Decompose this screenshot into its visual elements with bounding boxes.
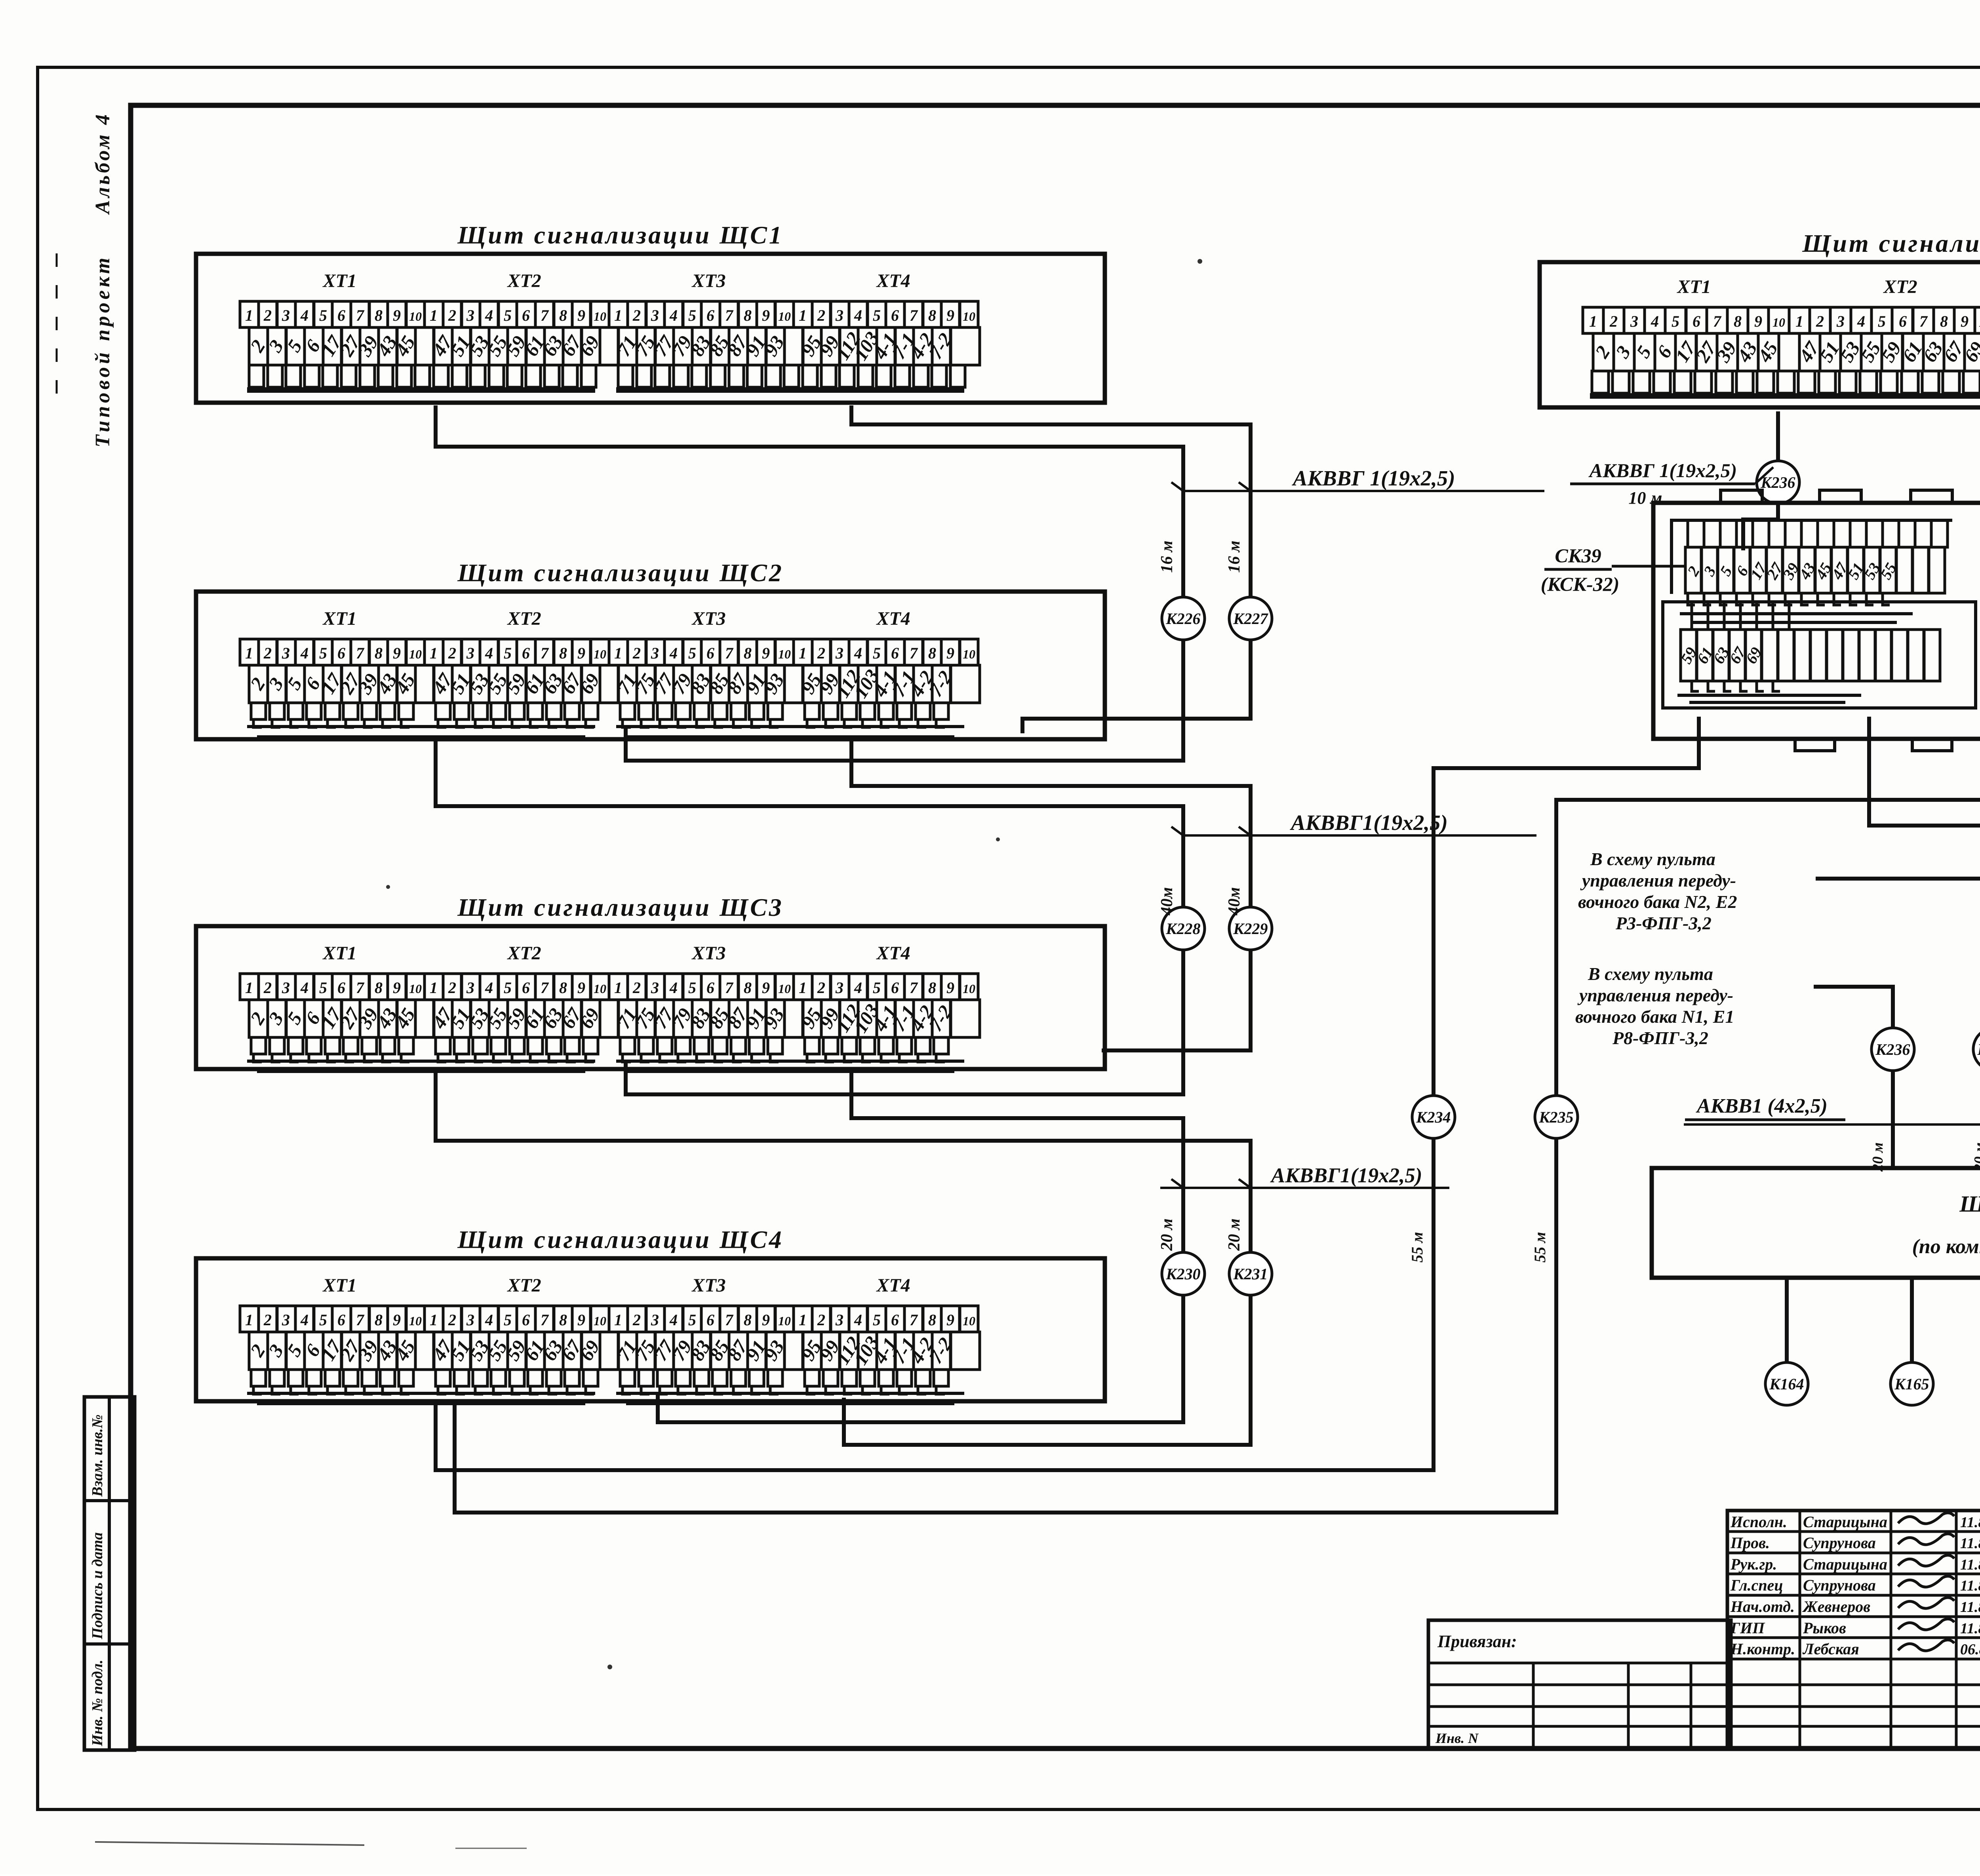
svg-text:5: 5: [504, 644, 512, 662]
svg-text:5: 5: [873, 306, 881, 324]
svg-text:К226: К226: [1165, 610, 1200, 628]
svg-text:7: 7: [725, 1311, 734, 1329]
terminal strip numbered cells of ЩС5: [1583, 307, 1603, 333]
terminal stubs of ЩС4: [251, 1370, 266, 1386]
svg-text:10: 10: [594, 647, 606, 661]
svg-text:9: 9: [393, 306, 401, 324]
svg-text:2: 2: [448, 1311, 456, 1329]
svg-text:9: 9: [946, 306, 954, 324]
svg-text:11.85: 11.85: [1960, 1556, 1980, 1573]
wire-number cells of ЩС2: [249, 665, 268, 703]
svg-text:7: 7: [910, 306, 918, 324]
svg-text:Щит 1Ш: Щит 1Ш: [1959, 1191, 1980, 1217]
svg-text:6: 6: [706, 979, 714, 997]
svg-text:11.85: 11.85: [1960, 1620, 1980, 1637]
svg-text:7: 7: [1919, 312, 1928, 330]
svg-text:2: 2: [448, 979, 456, 997]
signal panel ЩС2: [196, 592, 1105, 739]
svg-text:вочного бака N1, Е1: вочного бака N1, Е1: [1575, 1006, 1734, 1027]
svg-text:XT2: XT2: [1883, 276, 1917, 297]
svg-text:5: 5: [504, 979, 512, 997]
svg-text:1: 1: [614, 979, 622, 997]
svg-text:10: 10: [778, 982, 791, 996]
svg-text:4: 4: [669, 306, 678, 324]
svg-text:4: 4: [300, 979, 308, 997]
svg-text:4: 4: [854, 979, 862, 997]
svg-text:10: 10: [409, 647, 422, 661]
terminal stubs of ЩС1: [249, 365, 264, 387]
svg-text:6: 6: [1899, 312, 1907, 330]
signal panel ЩС3: [196, 926, 1105, 1069]
svg-text:8: 8: [1734, 312, 1742, 330]
svg-text:6: 6: [337, 644, 345, 662]
svg-text:3: 3: [466, 1311, 474, 1329]
svg-text:5: 5: [319, 644, 327, 662]
signal panel ЩС1: [196, 254, 1105, 403]
cable bundle bus bars of ЩС1: [247, 387, 595, 393]
upper comb hooks and bus of СК39: [1688, 593, 1695, 605]
svg-text:К229: К229: [1233, 920, 1268, 938]
wire: Щит 1Ш to К164: [1785, 1278, 1789, 1363]
svg-text:Исполн.: Исполн.: [1730, 1513, 1787, 1531]
svg-text:9: 9: [762, 1311, 770, 1329]
svg-text:ГИП: ГИП: [1730, 1619, 1765, 1637]
svg-text:Нач.отд.: Нач.отд.: [1730, 1598, 1795, 1615]
svg-text:3: 3: [651, 1311, 659, 1329]
svg-text:10: 10: [963, 309, 975, 323]
svg-text:8: 8: [928, 979, 936, 997]
svg-text:1: 1: [245, 979, 253, 997]
svg-text:4: 4: [485, 644, 493, 662]
svg-text:АКВВГ1(19х2,5): АКВВГ1(19х2,5): [1290, 811, 1448, 835]
cable bundle bus bars of ЩС5: [1590, 393, 1980, 399]
svg-text:55 м: 55 м: [1531, 1232, 1549, 1262]
svg-text:К231: К231: [1233, 1265, 1268, 1283]
cable mark К164: [1765, 1362, 1808, 1405]
svg-text:СК39: СК39: [1555, 544, 1601, 567]
svg-text:10: 10: [409, 309, 422, 323]
svg-text:1: 1: [1795, 312, 1803, 330]
svg-text:9: 9: [577, 979, 585, 997]
svg-text:9: 9: [762, 306, 770, 324]
title block: approvals table: [1727, 1511, 1980, 1748]
svg-text:Привязан:: Привязан:: [1437, 1632, 1517, 1651]
wire: K227 continues into ЩС2 right comb: [1022, 639, 1251, 733]
svg-text:АКВВГ 1(19х2,5): АКВВГ 1(19х2,5): [1588, 459, 1737, 481]
svg-text:9: 9: [946, 979, 954, 997]
cable mark K236 (lower): [1871, 1028, 1914, 1071]
svg-text:XT4: XT4: [876, 270, 910, 291]
svg-text:2: 2: [632, 1311, 641, 1329]
wire: cable from ЩС3 left bus to K231: [436, 1072, 1251, 1253]
svg-text:2: 2: [632, 644, 641, 662]
svg-text:Н.контр.: Н.контр.: [1730, 1640, 1795, 1658]
svg-text:Взам. инв.№: Взам. инв.№: [89, 1414, 106, 1497]
svg-text:8: 8: [928, 306, 936, 324]
cable mark K236 (at ЩС5): [1757, 461, 1799, 504]
svg-text:2: 2: [817, 979, 825, 997]
svg-text:4: 4: [854, 1311, 862, 1329]
terminal stubs of ЩС5: [1592, 371, 1609, 393]
svg-text:(по компл. черт. ЭМ): (по компл. черт. ЭМ): [1912, 1235, 1980, 1258]
svg-text:7: 7: [725, 979, 734, 997]
svg-text:3: 3: [1630, 312, 1638, 330]
svg-text:3: 3: [835, 979, 843, 997]
svg-text:8: 8: [559, 1311, 567, 1329]
svg-text:К234: К234: [1416, 1108, 1451, 1126]
svg-text:7: 7: [541, 979, 549, 997]
svg-text:Щит сигнализации ЩС3: Щит сигнализации ЩС3: [457, 893, 784, 921]
svg-text:5: 5: [1878, 312, 1886, 330]
svg-text:5: 5: [873, 1311, 881, 1329]
panel Щит 1Ш: [1652, 1168, 1980, 1278]
svg-text:1: 1: [614, 1311, 622, 1329]
scan specks bottom edge: [95, 1842, 364, 1845]
signal panel ЩС4: [196, 1258, 1105, 1401]
svg-text:К235: К235: [1538, 1108, 1573, 1126]
svg-text:5: 5: [688, 979, 696, 997]
svg-text:XT2: XT2: [506, 270, 541, 291]
svg-text:К165: К165: [1894, 1375, 1929, 1393]
svg-text:5: 5: [688, 306, 696, 324]
svg-text:6: 6: [1693, 312, 1700, 330]
svg-text:АКВВГ1(19х2,5): АКВВГ1(19х2,5): [1270, 1164, 1422, 1187]
svg-text:5: 5: [319, 1311, 327, 1329]
wire: cable from ЩС2 right bus to K229: [851, 738, 1251, 908]
svg-text:К228: К228: [1165, 920, 1200, 938]
wire: cable from ЩС2 left bus to K228: [436, 738, 1183, 908]
svg-text:7: 7: [356, 1311, 365, 1329]
cable label АКВВГ1(19х2,5) between ЩС2 and ЩС3: [1183, 834, 1536, 837]
svg-text:Пров.: Пров.: [1730, 1534, 1770, 1552]
svg-text:9: 9: [1754, 312, 1762, 330]
title block: Привязан section: [1428, 1620, 1731, 1748]
svg-text:К230: К230: [1165, 1265, 1200, 1283]
svg-text:8: 8: [375, 306, 383, 324]
svg-text:К237: К237: [1977, 1041, 1980, 1058]
svg-text:6: 6: [522, 1311, 530, 1329]
svg-text:АКВВ1 (4х2,5): АКВВ1 (4х2,5): [1696, 1095, 1828, 1117]
svg-text:4: 4: [854, 306, 862, 324]
svg-text:4: 4: [669, 979, 678, 997]
svg-text:6: 6: [522, 306, 530, 324]
lower terminal row of СК39: [1692, 602, 1708, 630]
svg-text:9: 9: [946, 1311, 954, 1329]
svg-text:5: 5: [1672, 312, 1679, 330]
svg-text:К236: К236: [1760, 474, 1795, 491]
svg-text:9: 9: [762, 979, 770, 997]
svg-text:4: 4: [1651, 312, 1659, 330]
cable mark K230: [1162, 1252, 1205, 1295]
svg-text:1: 1: [799, 644, 807, 662]
svg-text:3: 3: [651, 644, 659, 662]
svg-text:1: 1: [1589, 312, 1597, 330]
svg-text:10: 10: [1772, 315, 1785, 329]
svg-text:9: 9: [393, 644, 401, 662]
svg-text:4: 4: [669, 1311, 678, 1329]
cable mark K235: [1535, 1096, 1578, 1138]
svg-text:2: 2: [1816, 312, 1824, 330]
svg-text:6: 6: [891, 979, 899, 997]
svg-text:3: 3: [651, 306, 659, 324]
upper terminal row of СК39: [1688, 520, 1704, 547]
svg-text:1: 1: [430, 1311, 438, 1329]
svg-text:управления переду-: управления переду-: [1580, 870, 1736, 890]
svg-text:7: 7: [910, 644, 918, 662]
svg-text:7: 7: [356, 644, 365, 662]
svg-text:4: 4: [300, 306, 308, 324]
terminal strip numbered cells of ЩС1: [240, 301, 259, 327]
svg-text:9: 9: [1961, 312, 1969, 330]
svg-text:К164: К164: [1769, 1375, 1804, 1393]
svg-text:7: 7: [725, 306, 734, 324]
lower comb hooks and bus of СК39: [1692, 681, 1699, 691]
wire: note N2,E2 to K237: [1816, 879, 1980, 1029]
svg-text:Щит сигнализации ЩС2: Щит сигнализации ЩС2: [457, 559, 784, 587]
svg-text:2: 2: [817, 1311, 825, 1329]
svg-text:Р8-ФПГ-3,2: Р8-ФПГ-3,2: [1612, 1028, 1708, 1048]
svg-text:10: 10: [963, 982, 975, 996]
svg-text:7: 7: [356, 979, 365, 997]
svg-text:5: 5: [873, 644, 881, 662]
svg-text:3: 3: [1836, 312, 1845, 330]
top mounting tabs of СК39: [1721, 490, 1762, 503]
svg-text:6: 6: [337, 306, 345, 324]
svg-text:6: 6: [522, 644, 530, 662]
svg-text:3: 3: [466, 979, 474, 997]
svg-text:4: 4: [669, 644, 678, 662]
svg-text:11.85: 11.85: [1960, 1535, 1980, 1552]
svg-text:4: 4: [485, 1311, 493, 1329]
svg-text:8: 8: [375, 979, 383, 997]
svg-text:9: 9: [393, 979, 401, 997]
svg-text:АКВВГ 1(19х2,5): АКВВГ 1(19х2,5): [1292, 466, 1455, 490]
wire: cable from ЩС1 right bus to K227: [851, 405, 1251, 598]
svg-text:XT2: XT2: [506, 943, 541, 964]
svg-text:7: 7: [1713, 312, 1722, 330]
svg-text:2: 2: [817, 644, 825, 662]
cable mark K237 (lower): [1973, 1028, 1980, 1071]
svg-text:10: 10: [778, 1314, 791, 1328]
fold mark dashes left margin: [56, 253, 58, 400]
svg-text:6: 6: [337, 979, 345, 997]
svg-text:Щит сигнализации ЩС4: Щит сигнализации ЩС4: [457, 1225, 784, 1254]
svg-text:4: 4: [854, 644, 862, 662]
svg-text:XT4: XT4: [876, 608, 910, 629]
wire: K228 continues into ЩС3 left bus: [626, 950, 1183, 1094]
svg-text:8: 8: [744, 306, 752, 324]
wire: Щит 1Ш to К165: [1910, 1278, 1914, 1363]
svg-text:10: 10: [409, 982, 422, 996]
svg-text:6: 6: [706, 1311, 714, 1329]
svg-text:5: 5: [319, 306, 327, 324]
svg-text:Старицына: Старицына: [1803, 1513, 1887, 1531]
svg-text:7: 7: [541, 644, 549, 662]
svg-text:8: 8: [559, 979, 567, 997]
cable label АКВВГ1(19х2,5) between ЩС3 and ЩС4: [1160, 1187, 1449, 1189]
cable bundle bus lines of ЩС3: [253, 1054, 262, 1062]
svg-text:2: 2: [263, 1311, 272, 1329]
svg-text:11.85: 11.85: [1960, 1599, 1980, 1615]
svg-text:9: 9: [577, 306, 585, 324]
wire-number cells of ЩС3: [249, 1000, 268, 1037]
svg-text:8: 8: [928, 1311, 936, 1329]
svg-text:Жевнеров: Жевнеров: [1802, 1598, 1870, 1615]
svg-text:3: 3: [466, 306, 474, 324]
svg-text:8: 8: [559, 644, 567, 662]
svg-text:К227: К227: [1233, 610, 1268, 628]
wire: АКВВ1 horizontal run: [1684, 1123, 1980, 1126]
bottom mounting tabs of СК39: [1795, 739, 1835, 751]
terminal strip numbered cells of ЩС2: [240, 639, 259, 665]
svg-text:(КСК-32): (КСК-32): [1541, 573, 1620, 595]
svg-text:55 м: 55 м: [1408, 1232, 1426, 1262]
svg-text:20 м: 20 м: [1158, 1218, 1176, 1251]
svg-text:XT2: XT2: [506, 1275, 541, 1296]
cable mark K228: [1162, 907, 1205, 950]
svg-text:3: 3: [466, 644, 474, 662]
svg-text:5: 5: [873, 979, 881, 997]
svg-text:4: 4: [485, 306, 493, 324]
svg-text:3: 3: [282, 979, 290, 997]
svg-text:5: 5: [504, 306, 512, 324]
cable bundle bus lines of ЩС4: [253, 1386, 262, 1394]
svg-text:1: 1: [245, 306, 253, 324]
svg-text:Инв. № подл.: Инв. № подл.: [89, 1660, 106, 1747]
wire-number cells of ЩС1: [249, 327, 268, 365]
svg-text:2: 2: [1609, 312, 1618, 330]
svg-text:5: 5: [688, 1311, 696, 1329]
svg-text:6: 6: [337, 1311, 345, 1329]
svg-text:9: 9: [577, 1311, 585, 1329]
svg-text:7: 7: [541, 306, 549, 324]
cable mark К165: [1891, 1362, 1933, 1405]
svg-text:XT4: XT4: [876, 943, 910, 964]
svg-text:2: 2: [263, 979, 272, 997]
signal panel ЩС5: [1540, 262, 1980, 407]
svg-text:Лебская: Лебская: [1802, 1640, 1859, 1658]
cable bundle bus lines of ЩС2: [253, 719, 262, 727]
svg-text:3: 3: [282, 1311, 290, 1329]
cable mark K227: [1229, 597, 1272, 640]
svg-text:2: 2: [263, 644, 272, 662]
cable label АКВВГ1(19х2,5) between ЩС1 and ЩС2: [1183, 490, 1544, 492]
svg-text:8: 8: [559, 306, 567, 324]
wire: cable from ЩС1 left bus to K226: [436, 405, 1183, 598]
svg-text:5: 5: [688, 644, 696, 662]
wire: K236 lower drop to Щит 1Ш: [1891, 1070, 1895, 1168]
svg-text:40м: 40м: [1158, 887, 1176, 916]
svg-text:7: 7: [541, 1311, 549, 1329]
terminal strip numbered cells of ЩС4: [240, 1306, 259, 1332]
svg-text:XT2: XT2: [506, 608, 541, 629]
svg-text:XT1: XT1: [322, 270, 356, 291]
svg-text:2: 2: [632, 306, 641, 324]
svg-text:XT1: XT1: [322, 943, 356, 964]
svg-text:Щит сигнализации ЩС5: Щит сигнализации ЩС5: [1802, 229, 1980, 257]
svg-text:6: 6: [891, 1311, 899, 1329]
svg-text:2: 2: [448, 306, 456, 324]
svg-text:4: 4: [300, 1311, 308, 1329]
svg-text:3: 3: [282, 306, 290, 324]
svg-text:К236: К236: [1875, 1041, 1910, 1058]
svg-text:Инв. N: Инв. N: [1435, 1730, 1479, 1746]
svg-text:7: 7: [725, 644, 734, 662]
svg-text:06.86: 06.86: [1960, 1641, 1980, 1658]
svg-text:6: 6: [522, 979, 530, 997]
svg-text:2: 2: [632, 979, 641, 997]
svg-text:4: 4: [485, 979, 493, 997]
svg-text:Рыков: Рыков: [1803, 1619, 1846, 1637]
svg-text:8: 8: [744, 644, 752, 662]
svg-text:7: 7: [356, 306, 365, 324]
svg-text:Р3-ФПГ-3,2: Р3-ФПГ-3,2: [1615, 913, 1712, 933]
svg-text:7: 7: [910, 979, 918, 997]
svg-text:9: 9: [393, 1311, 401, 1329]
svg-text:6: 6: [706, 306, 714, 324]
svg-text:8: 8: [744, 979, 752, 997]
svg-text:XT1: XT1: [1676, 276, 1711, 297]
svg-text:1: 1: [430, 306, 438, 324]
svg-text:6: 6: [891, 644, 899, 662]
svg-text:8: 8: [375, 644, 383, 662]
inner enclosure walls of СК39: [1672, 520, 1952, 594]
svg-text:6: 6: [891, 306, 899, 324]
svg-text:10: 10: [963, 647, 975, 661]
wire: K230 continues into ЩС4 left bus: [658, 1295, 1183, 1422]
svg-text:10: 10: [594, 982, 606, 996]
wire-number cells of ЩС5: [1593, 333, 1614, 371]
svg-text:8: 8: [375, 1311, 383, 1329]
svg-text:В схему пульта: В схему пульта: [1588, 964, 1713, 984]
svg-text:5: 5: [504, 1311, 512, 1329]
wire: ЩС5 left bus to K236: [1776, 411, 1780, 462]
cable mark K229: [1229, 907, 1272, 950]
svg-text:4: 4: [300, 644, 308, 662]
svg-text:3: 3: [835, 306, 843, 324]
svg-text:2: 2: [817, 306, 825, 324]
cable mark K234: [1412, 1096, 1455, 1138]
svg-text:3: 3: [282, 644, 290, 662]
wire: K231 continues into ЩС4 right comb: [844, 1294, 1251, 1445]
svg-text:XT1: XT1: [322, 608, 356, 629]
svg-text:3: 3: [651, 979, 659, 997]
svg-text:20 м: 20 м: [1225, 1218, 1243, 1251]
svg-text:9: 9: [577, 644, 585, 662]
svg-text:10: 10: [409, 1314, 422, 1328]
svg-text:XT3: XT3: [691, 608, 725, 629]
svg-text:Альбом 4: Альбом 4: [91, 112, 114, 215]
svg-text:Гл.спец: Гл.спец: [1730, 1576, 1783, 1594]
svg-text:40м: 40м: [1225, 887, 1243, 916]
svg-text:10: 10: [778, 647, 791, 661]
wire: note N1,E1 to K236: [1814, 987, 1893, 1028]
wire: K229 continues into ЩС3 right comb: [1102, 949, 1251, 1050]
svg-text:7: 7: [910, 1311, 918, 1329]
svg-text:Щит сигнализации ЩС1: Щит сигнализации ЩС1: [457, 221, 784, 249]
svg-text:Супрунова: Супрунова: [1803, 1576, 1876, 1594]
svg-text:Подпись и дата: Подпись и дата: [89, 1532, 106, 1640]
terminal strip numbered cells of ЩС3: [240, 974, 259, 1000]
svg-text:XT4: XT4: [876, 1275, 910, 1296]
svg-text:1: 1: [430, 644, 438, 662]
svg-text:1: 1: [614, 306, 622, 324]
svg-text:1: 1: [614, 644, 622, 662]
wire: K236 into CK39 top: [1743, 503, 1778, 550]
wire: cable from ЩС4 right bus up to CK40 (K235): [455, 713, 1980, 1513]
svg-text:3: 3: [835, 1311, 843, 1329]
cable mark K231: [1229, 1252, 1272, 1295]
